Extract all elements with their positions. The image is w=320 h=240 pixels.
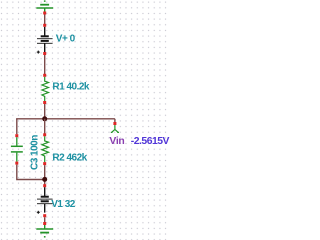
svg-text:Vin: Vin <box>109 136 124 147</box>
wire node horizontal (left to Vin corner) <box>16 118 115 120</box>
wire Vin corner down <box>114 119 116 123</box>
svg-text:R2 462k: R2 462k <box>52 153 87 164</box>
wire R1 to node <box>44 104 46 119</box>
ground GND1 (top, pointing up) <box>36 1 53 12</box>
terminal R2 top <box>43 133 46 136</box>
terminal C3 bottom <box>15 162 18 165</box>
wire R2 to bottom node <box>44 165 46 184</box>
wire left branch down <box>16 119 18 134</box>
wire node to R2 <box>44 119 46 134</box>
terminal V1 top <box>43 184 46 187</box>
battery V+ <box>37 27 53 52</box>
battery V1 <box>37 187 53 212</box>
wire C3 to bottom node <box>17 165 45 180</box>
terminal of GND1 <box>43 12 46 15</box>
wire ground to V+ <box>44 15 46 25</box>
terminal V1 bottom <box>43 214 46 217</box>
resistor R2 <box>42 136 49 162</box>
plus sign of V1 <box>37 211 40 214</box>
svg-text:R1 40.2k: R1 40.2k <box>52 81 90 92</box>
terminal Vin pin <box>113 122 116 125</box>
voltage pin marker (green) <box>111 125 119 132</box>
terminal R1 bottom <box>43 101 46 104</box>
junction node B dot <box>42 177 47 182</box>
terminal R2 bottom <box>43 162 46 165</box>
svg-text:V1 32: V1 32 <box>51 199 76 210</box>
ground GND2 (bottom) <box>36 225 53 237</box>
wire V+ to R1 <box>44 55 46 74</box>
terminal GND2 <box>43 222 46 225</box>
svg-text:V+ 0: V+ 0 <box>56 34 76 45</box>
plus sign of V+ <box>37 51 40 54</box>
svg-text:-2.5615V: -2.5615V <box>131 136 170 147</box>
wire V1 to ground <box>44 217 46 222</box>
terminal V+ top <box>43 24 46 27</box>
svg-text:C3 100n: C3 100n <box>30 135 41 170</box>
junction node A dot <box>42 116 47 121</box>
terminal R1 top <box>43 74 46 77</box>
terminal V+ bottom <box>43 52 46 55</box>
capacitor C3 <box>11 137 23 161</box>
terminal C3 top <box>15 134 18 137</box>
resistor R1 <box>42 77 49 101</box>
